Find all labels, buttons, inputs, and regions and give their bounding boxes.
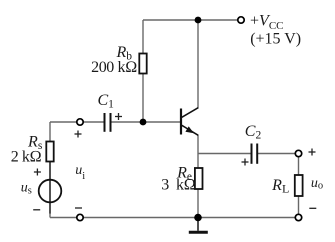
svg-text:2 kΩ: 2 kΩ bbox=[11, 149, 42, 166]
svg-text:200 kΩ: 200 kΩ bbox=[91, 59, 137, 76]
svg-text:(+15 V): (+15 V) bbox=[250, 30, 301, 47]
svg-text:3 kΩ: 3 kΩ bbox=[161, 176, 195, 193]
